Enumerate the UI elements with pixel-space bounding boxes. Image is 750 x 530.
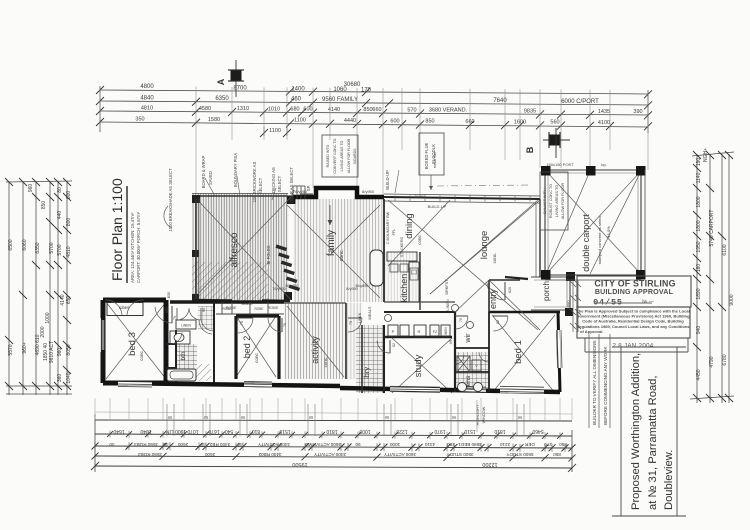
top dimension extension lines to plan [100, 86, 648, 200]
svg-text:570: 570 [407, 107, 416, 113]
svg-text:1000: 1000 [45, 312, 51, 323]
svg-text:9610 ACT: 9610 ACT [49, 341, 55, 363]
boxed note flue [419, 133, 444, 175]
porch outline [531, 277, 570, 310]
svg-text:70: 70 [173, 316, 177, 320]
door leaf lines [172, 282, 508, 353]
svg-text:porch: porch [542, 281, 551, 301]
bottom dimension block [91, 404, 576, 472]
svg-text:70: 70 [459, 318, 463, 322]
svg-text:kitchen: kitchen [399, 274, 409, 303]
svg-text:1890: 1890 [696, 288, 702, 299]
svg-text:82: 82 [496, 320, 500, 324]
svg-text:ens: ens [465, 375, 472, 386]
svg-text:1810: 1810 [326, 428, 337, 434]
svg-text:conc: conc [254, 353, 259, 363]
svg-text:90: 90 [355, 442, 361, 447]
front door opening [505, 277, 528, 279]
svg-text:SELECT: SELECT [277, 175, 282, 192]
svg-text:4800: 4800 [140, 84, 154, 90]
svg-text:4140: 4140 [328, 107, 340, 113]
svg-text:350: 350 [135, 116, 144, 122]
svg-text:800: 800 [66, 218, 72, 227]
svg-text:82: 82 [392, 343, 396, 347]
alfresco south wall segments [192, 299, 232, 302]
south wall windows study/bed1 [390, 387, 440, 391]
alfresco west post low [192, 294, 199, 301]
svg-text:C BOUNDARY RW: C BOUNDARY RW [386, 211, 390, 244]
boxed note balustrade [540, 172, 568, 230]
svg-text:90: 90 [202, 308, 206, 312]
alfresco SE corner post [284, 292, 292, 300]
south exterior wall [103, 383, 340, 386]
svg-text:1510: 1510 [279, 428, 290, 434]
svg-text:190: 190 [696, 158, 702, 167]
study east wall [454, 312, 456, 392]
svg-text:CONVERT CONC TO: CONVERT CONC TO [333, 138, 337, 173]
svg-text:4790: 4790 [709, 356, 715, 367]
svg-text:bed 2: bed 2 [242, 336, 252, 359]
svg-text:960: 960 [57, 348, 63, 357]
bth entry double arcs [177, 308, 189, 320]
dining/lounge north window wall [384, 197, 540, 199]
svg-text:40: 40 [163, 442, 169, 447]
svg-text:4100: 4100 [598, 120, 610, 126]
svg-text:3400 RB2: 3400 RB2 [209, 442, 230, 447]
right dimension block [690, 148, 735, 403]
svg-text:LINEN: LINEN [181, 324, 192, 328]
svg-text:850: 850 [165, 307, 169, 313]
smoke detector circles [452, 305, 459, 312]
svg-text:1950: 1950 [696, 241, 702, 252]
entry diagonal lines [489, 280, 540, 330]
svg-text:40: 40 [200, 442, 206, 447]
kitchen west bench [383, 199, 385, 302]
svg-text:2000: 2000 [40, 326, 46, 337]
svg-text:of Approval.: of Approval. [580, 329, 603, 334]
svg-text:1000 BREAKSHADE AS SELECT: 1000 BREAKSHADE AS SELECT [168, 168, 173, 232]
svg-text:30680: 30680 [344, 82, 361, 88]
svg-text:1000: 1000 [359, 428, 370, 434]
svg-text:1900 LIN: 1900 LIN [165, 428, 186, 434]
lbry shelves east wall [383, 325, 385, 393]
svg-text:at № 31, Parramatta Road,: at № 31, Parramatta Road, [647, 375, 659, 510]
svg-text:70: 70 [283, 323, 287, 327]
svg-text:3600 ACTIVITY: 3600 ACTIVITY [384, 452, 416, 457]
svg-text:1800: 1800 [696, 220, 702, 231]
svg-text:BOARD & WRAP: BOARD & WRAP [201, 156, 206, 189]
alfresco west post mid [192, 250, 199, 257]
svg-text:6100: 6100 [722, 244, 728, 255]
carport posts [541, 166, 551, 176]
svg-text:LIVING AREAS TO: LIVING AREAS TO [340, 140, 344, 171]
svg-text:activity: activity [310, 336, 320, 364]
svg-text:76/y950: 76/y950 [272, 287, 286, 291]
ens tiled floor [456, 352, 488, 392]
svg-text:5700: 5700 [57, 244, 63, 255]
svg-text:850: 850 [553, 452, 561, 457]
svg-text:1810: 1810 [494, 428, 505, 434]
left dimension block [5, 178, 72, 395]
svg-text:1800: 1800 [696, 196, 702, 207]
svg-text:LINEN: LINEN [358, 312, 362, 323]
svg-text:460: 460 [291, 97, 302, 103]
svg-text:metal flue: metal flue [433, 152, 437, 168]
alfresco diagonal overlay hatch lower-left [192, 262, 268, 302]
svg-text:600: 600 [390, 118, 399, 124]
svg-text:76/y950: 76/y950 [293, 189, 308, 194]
robes wall north of bed2 [170, 300, 284, 304]
svg-text:bed 3: bed 3 [127, 332, 138, 356]
wc door arc [199, 320, 212, 334]
svg-text:BUILDING APPROVAL: BUILDING APPROVAL [595, 288, 674, 296]
svg-text:600: 600 [303, 107, 312, 113]
svg-text:540: 540 [225, 428, 234, 434]
svg-text:660: 660 [372, 107, 381, 113]
alfresco west edge [195, 199, 197, 302]
east wall window [559, 330, 560, 368]
svg-text:1000: 1000 [389, 442, 400, 447]
svg-text:960: 960 [28, 184, 34, 193]
svg-text:NGH+: NGH+ [703, 148, 709, 162]
svg-text:AREA: 124.44m² KITCHEN: 15.47: AREA: 124.44m² KITCHEN: 15.47m² [130, 212, 135, 283]
bed3 room walls [103, 300, 166, 383]
family north wall with bay niche [293, 188, 384, 197]
kitchen sink [410, 268, 418, 280]
eaves dash-dot line [437, 185, 530, 186]
bed1 north wall [489, 311, 560, 313]
alfresco NE corner post [287, 196, 296, 205]
svg-text:lounge: lounge [479, 231, 490, 260]
svg-text:WINDOW: WINDOW [482, 406, 486, 423]
bottom extension lines [95, 398, 572, 420]
svg-text:Proposed Worthington Addition,: Proposed Worthington Addition, [630, 353, 642, 510]
svg-text:680: 680 [290, 107, 299, 113]
svg-text:conc: conc [417, 235, 422, 245]
porch post SE [565, 308, 573, 316]
svg-text:bed 1: bed 1 [513, 340, 524, 364]
activity east wall / passage [345, 303, 347, 379]
leader arrows upper-left [164, 170, 399, 228]
svg-text:study: study [413, 354, 424, 377]
svg-text:BEFORE COMMENCING ANY WORK: BEFORE COMMENCING ANY WORK [603, 346, 608, 425]
bed2 walls [236, 316, 279, 379]
kitchen floor strip [384, 252, 420, 302]
svg-text:3400 ACTIVITY: 3400 ACTIVITY [258, 442, 290, 447]
drawing title Floor Plan 1:100 [109, 178, 141, 283]
svg-text:3400 ACTIVITY: 3400 ACTIVITY [314, 452, 346, 457]
svg-text:280: 280 [447, 442, 455, 447]
bed3 door arcs [105, 300, 122, 315]
steps at alfresco to family [293, 186, 305, 199]
svg-text:family: family [326, 230, 337, 256]
svg-text:bth: bth [180, 351, 187, 360]
bth shower diagonal hatch [196, 364, 211, 381]
svg-text:850: 850 [363, 107, 372, 113]
svg-text:1510: 1510 [464, 428, 475, 434]
svg-text:5700: 5700 [49, 242, 55, 253]
svg-text:1140: 1140 [696, 172, 702, 183]
svg-text:2600: 2600 [177, 442, 188, 447]
exterior wall top (alfresco deck edge) [192, 195, 288, 197]
svg-text:conc.: conc. [492, 253, 497, 264]
svg-text:8050: 8050 [66, 344, 72, 355]
svg-text:4810: 4810 [141, 105, 153, 111]
svg-text:alfresco: alfresco [229, 232, 240, 267]
activity-family divider opening [284, 302, 346, 304]
svg-text:1070: 1070 [187, 428, 198, 434]
activity timber floor [284, 303, 346, 379]
svg-text:Floor Plan 1:100: Floor Plan 1:100 [109, 178, 125, 281]
svg-text:BALUST WITH: BALUST WITH [543, 188, 547, 214]
east exterior wall [558, 312, 560, 392]
svg-text:A: A [216, 78, 226, 85]
south exterior wall east part [340, 388, 560, 392]
svg-text:3550 ROB3: 3550 ROB3 [138, 452, 162, 457]
svg-text:1640: 1640 [113, 428, 124, 434]
svg-text:850: 850 [425, 119, 434, 125]
bth linen box [176, 320, 196, 329]
svg-text:440: 440 [57, 211, 63, 220]
svg-text:2890: 2890 [566, 300, 571, 310]
svg-text:4810: 4810 [66, 246, 72, 257]
svg-text:6500: 6500 [8, 239, 14, 250]
svg-text:STACKERS: STACKERS [400, 236, 404, 257]
boxed note balustrade 2 near family [322, 135, 358, 177]
svg-text:810: 810 [252, 428, 261, 434]
svg-text:double carport: double carport [581, 214, 591, 272]
svg-text:70: 70 [240, 321, 244, 325]
svg-text:4310: 4310 [424, 442, 435, 447]
svg-text:CITY OF STIRLING: CITY OF STIRLING [594, 279, 675, 289]
svg-text:lbry: lbry [362, 367, 371, 379]
svg-text:stamped concrete as select: stamped concrete as select [597, 215, 602, 265]
svg-text:150x150 POST: 150x150 POST [546, 162, 574, 167]
deck stairs treads [276, 245, 301, 292]
svg-text:560: 560 [550, 120, 559, 126]
svg-text:BOXED FLUE: BOXED FLUE [424, 143, 429, 170]
bed3 west window break [100, 318, 102, 352]
svg-text:BOUNDARY PISA: BOUNDARY PISA [233, 153, 238, 187]
svg-text:820: 820 [508, 287, 512, 293]
svg-text:4440: 4440 [344, 118, 356, 124]
svg-text:B: B [525, 146, 535, 153]
svg-text:2 8 JAN 2004: 2 8 JAN 2004 [612, 343, 653, 350]
svg-text:6350: 6350 [215, 96, 229, 102]
svg-text:6000 C/PORT: 6000 C/PORT [561, 99, 599, 105]
svg-text:1970: 1970 [434, 428, 445, 434]
alfresco west post top [192, 195, 200, 203]
svg-text:45-0%: 45-0% [606, 226, 611, 238]
porch post NE [566, 272, 575, 281]
svg-text:conc.: conc. [323, 357, 328, 368]
svg-text:940: 940 [696, 326, 702, 335]
svg-text:BRKFST: BRKFST [445, 279, 449, 295]
lounge east wall [539, 199, 541, 277]
svg-text:LINEN: LINEN [446, 299, 450, 310]
svg-text:9835: 9835 [524, 108, 536, 114]
svg-text:1220: 1220 [396, 428, 407, 434]
svg-text:850: 850 [41, 201, 47, 210]
svg-text:FFL: FFL [392, 229, 396, 236]
wc tiled floor [198, 306, 214, 330]
family timber floor [293, 199, 384, 302]
bath tub horizontal [167, 369, 196, 381]
svg-text:SAVED: SAVED [208, 171, 213, 185]
svg-text:19500: 19500 [292, 461, 307, 467]
passage timber floor [346, 303, 362, 379]
svg-text:MEALS: MEALS [368, 306, 372, 319]
svg-text:5500 STUDY: 5500 STUDY [506, 452, 533, 457]
svg-text:2210: 2210 [499, 442, 510, 447]
svg-text:4R: 4R [449, 339, 453, 344]
svg-text:BOARDS: BOARDS [353, 148, 357, 164]
bth walls [166, 302, 214, 383]
svg-text:6350: 6350 [35, 242, 41, 253]
title block box [612, 347, 686, 516]
svg-text:8/y950: 8/y950 [362, 189, 375, 194]
svg-text:ALLOW FOR FLOOR: ALLOW FOR FLOOR [347, 138, 351, 173]
section marker A [216, 60, 244, 97]
svg-text:1010: 1010 [268, 106, 280, 112]
svg-text:ROBE: ROBE [254, 307, 263, 311]
svg-text:600: 600 [66, 191, 72, 200]
svg-text:80: 80 [57, 187, 63, 193]
svg-text:P: P [392, 329, 395, 334]
svg-text:3600 ACTIVITY: 3600 ACTIVITY [309, 442, 341, 447]
study north wall with pantry row [384, 336, 452, 338]
svg-text:6060: 6060 [22, 239, 28, 250]
wir/ens walls [455, 312, 489, 392]
svg-text:BUILD-UP: BUILD-UP [385, 170, 390, 190]
svg-text:960+: 960+ [22, 342, 28, 353]
svg-text:entry: entry [488, 288, 498, 309]
svg-text:4580: 4580 [199, 106, 211, 112]
svg-text:conc: conc [139, 351, 144, 361]
svg-text:LIVING AREAS TO: LIVING AREAS TO [555, 185, 559, 217]
svg-text:№ —: № — [642, 299, 654, 305]
svg-text:DECKING AS: DECKING AS [271, 167, 276, 193]
south wall windows bed3/bed2 [118, 382, 152, 386]
svg-text:100 BRICKWORK AS: 100 BRICKWORK AS [252, 162, 257, 203]
window glazing marks north wall [394, 196, 396, 202]
svg-text:ROBE: ROBE [268, 306, 279, 310]
svg-text:1040: 1040 [66, 372, 72, 383]
svg-text:conc.: conc. [339, 249, 345, 261]
svg-text:170: 170 [361, 88, 372, 94]
ceiling rake diagonals [106, 171, 641, 393]
steps arrow family [329, 205, 331, 225]
svg-text:SELECT: SELECT [258, 177, 263, 194]
carport east beam double line [644, 170, 646, 275]
svg-text:BI/650: BI/650 [415, 195, 426, 199]
svg-text:5740 CARPORT: 5740 CARPORT [709, 210, 715, 247]
svg-text:1310: 1310 [237, 106, 249, 112]
svg-text:RAISED WTG: RAISED WTG [326, 144, 330, 167]
svg-text:8700: 8700 [233, 86, 247, 92]
svg-text:9560 FAMILY: 9560 FAMILY [322, 97, 358, 103]
svg-text:BI/y850: BI/y850 [286, 284, 299, 288]
svg-text:9000: 9000 [729, 294, 735, 305]
top dimension block [96, 82, 652, 137]
door arcs [155, 283, 508, 364]
svg-text:3550 ROB3: 3550 ROB3 [134, 442, 158, 447]
svg-text:1400: 1400 [291, 87, 305, 93]
svg-text:B50: B50 [167, 292, 171, 298]
svg-text:850: 850 [559, 442, 567, 447]
svg-text:Doubleview.: Doubleview. [663, 450, 675, 510]
svg-text:BUILDER TO VERIFY ALL DIMENSIO: BUILDER TO VERIFY ALL DIMENSIONS [592, 340, 597, 425]
svg-text:360: 360 [57, 374, 63, 383]
svg-text:1580: 1580 [208, 117, 220, 123]
svg-text:5570: 5570 [8, 344, 14, 355]
hall south of kitchen [384, 301, 455, 303]
svg-text:BI FOLDS: BI FOLDS [266, 245, 271, 264]
svg-text:OER: OER [524, 442, 535, 447]
svg-text:ROBE: ROBE [226, 306, 237, 310]
svg-text:3680 VERAND.: 3680 VERAND. [429, 108, 468, 114]
svg-text:1040: 1040 [140, 428, 151, 434]
builder verify note vertical [589, 334, 610, 428]
svg-text:R: R [418, 329, 421, 334]
svg-text:HIGHLIGHT: HIGHLIGHT [476, 404, 480, 425]
bth vanity [170, 331, 190, 344]
double carport outline [545, 170, 641, 275]
svg-text:1100: 1100 [294, 118, 306, 124]
svg-text:04/55: 04/55 [593, 298, 623, 308]
entry and porch walls [489, 280, 520, 312]
svg-text:3500 STUDY: 3500 STUDY [446, 452, 473, 457]
council stamp CITY OF STIRLING [576, 276, 691, 352]
section marker B [525, 128, 570, 158]
svg-text:ALLOW FOR FLOOR: ALLOW FOR FLOOR [561, 182, 565, 219]
svg-text:1100: 1100 [269, 128, 281, 134]
lbry tiled floor [356, 325, 384, 393]
svg-text:4450: 4450 [696, 369, 702, 380]
svg-text:2600: 2600 [204, 452, 215, 457]
svg-text:4840: 4840 [140, 95, 154, 101]
svg-text:650: 650 [66, 296, 72, 305]
alfresco deck hatching [193, 194, 289, 301]
svg-text:270: 270 [544, 442, 552, 447]
svg-text:dining: dining [404, 213, 415, 238]
svg-text:3580 BED1: 3580 BED1 [458, 442, 482, 447]
carport south edge steps [545, 279, 641, 281]
svg-text:ROBUST CONC TO: ROBUST CONC TO [549, 184, 553, 218]
svg-text:CARPORT: 30.00m² PORCH: 5.67m: CARPORT: 30.00m² PORCH: 5.67m² [136, 211, 141, 283]
svg-text:180: 180 [696, 264, 702, 273]
svg-text:12200: 12200 [482, 461, 497, 467]
bed3 robe box [107, 303, 143, 316]
pantry fridge boxes [388, 325, 398, 336]
porch dim column [572, 280, 574, 332]
bth tiled floor [176, 344, 197, 369]
svg-text:5460: 5460 [532, 428, 543, 434]
svg-text:8/y950: 8/y950 [346, 287, 357, 291]
ens fixtures [458, 383, 467, 392]
svg-text:70: 70 [349, 321, 353, 325]
svg-text:BUILD-UP: BUILD-UP [428, 204, 447, 209]
svg-text:bp.: bp. [601, 162, 607, 167]
svg-text:390: 390 [633, 109, 642, 115]
svg-text:40: 40 [237, 442, 243, 447]
kitchen benches and appliances [387, 252, 417, 261]
kitchen-dining divider [419, 252, 421, 310]
svg-text:6780: 6780 [722, 354, 728, 365]
svg-text:3400 RB02: 3400 RB02 [258, 452, 281, 457]
svg-text:LINEN: LINEN [444, 327, 448, 337]
svg-text:wir: wir [465, 333, 472, 344]
